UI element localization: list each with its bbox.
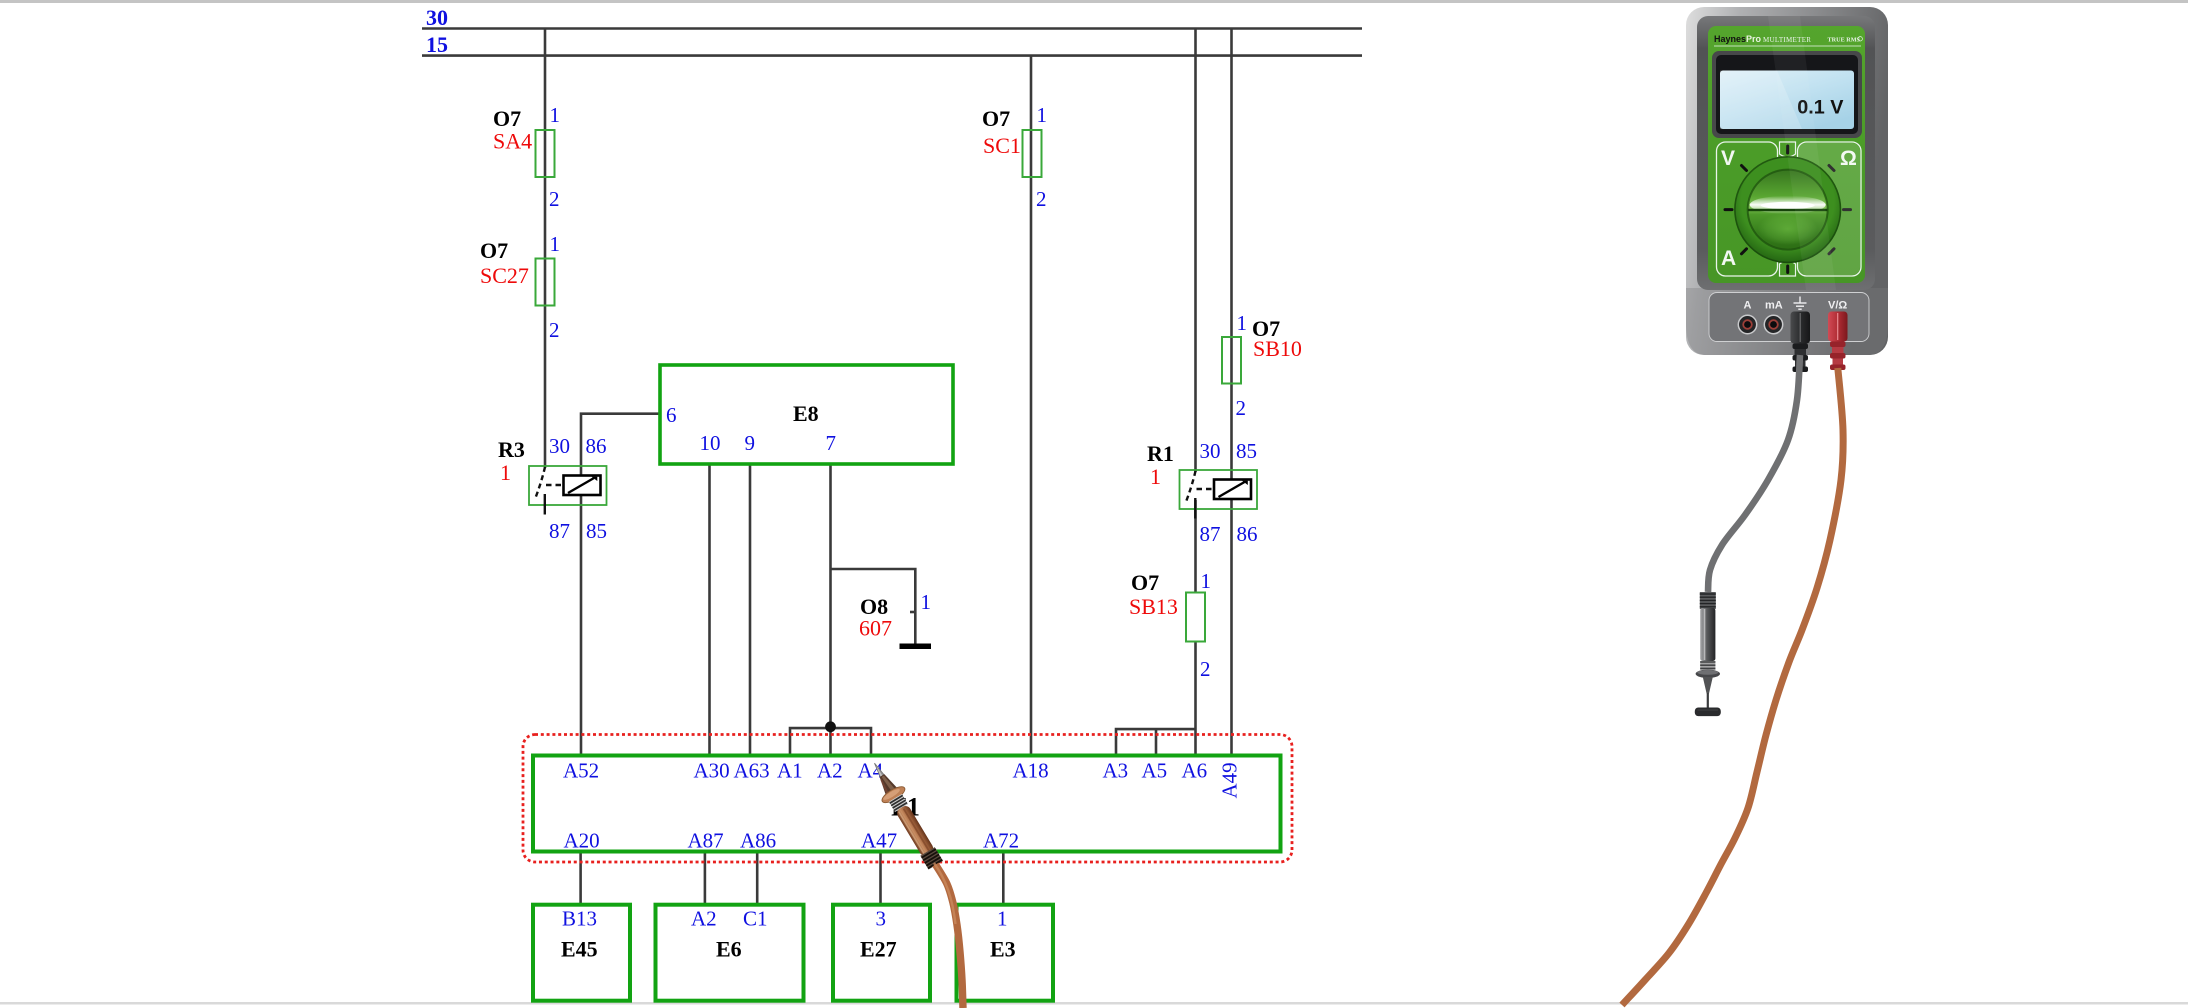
svg-text:2: 2: [549, 187, 560, 211]
relay R3 pin 87 contact stub: [544, 494, 546, 515]
svg-text:V/Ω: V/Ω: [1828, 300, 1847, 312]
svg-text:A1: A1: [777, 759, 803, 783]
svg-text:A49: A49: [1218, 762, 1242, 798]
box E3: [957, 905, 1054, 1001]
wire A47 to E27 pin3: [879, 852, 882, 905]
svg-text:1: 1: [997, 907, 1008, 931]
wire branch to O8: [831, 569, 916, 644]
black probe hanging: [1695, 592, 1721, 716]
wire V4 bus30 to relay R1 pin85: [1230, 29, 1233, 480]
terminal panel: [1709, 293, 1869, 342]
svg-text:O7: O7: [1131, 570, 1159, 595]
wire stub A5: [1155, 729, 1158, 755]
svg-text:TRUE RMS: TRUE RMS: [1828, 37, 1861, 44]
bus 15: [422, 54, 1362, 57]
svg-text:85: 85: [586, 519, 607, 543]
box E45: [533, 905, 630, 1001]
red probe cable down between E27 and E3: [936, 865, 964, 1008]
svg-text:E6: E6: [716, 937, 742, 962]
dial knob: [1748, 170, 1828, 250]
svg-text:7: 7: [826, 431, 837, 455]
page frame bottom: [0, 1002, 2188, 1005]
svg-text:A: A: [1744, 300, 1752, 312]
wire relay R3 pin85 to A52: [580, 494, 583, 756]
junction node A2: [825, 721, 836, 732]
wire A20 to E45 B13: [579, 852, 582, 905]
wire V2 bus15 to A18: [1030, 56, 1033, 756]
dial outer ring: [1734, 156, 1841, 263]
svg-text:2: 2: [549, 318, 560, 342]
wire A86 to E6 C1: [756, 852, 759, 905]
svg-text:B13: B13: [562, 907, 597, 931]
svg-text:O7: O7: [982, 106, 1010, 131]
connector F1 box: [533, 756, 1281, 852]
svg-text:1: 1: [1237, 311, 1248, 335]
meter body: [1686, 7, 1888, 355]
svg-text:1: 1: [1037, 103, 1048, 127]
zone right lighter: [1799, 143, 1861, 275]
svg-text:R1: R1: [1147, 441, 1174, 466]
gray lead from ground jack to black probe: [1708, 355, 1800, 592]
relay R1 coil: [1214, 480, 1251, 500]
svg-text:1: 1: [1201, 569, 1212, 593]
svg-text:A2: A2: [691, 907, 717, 931]
svg-text:SC1: SC1: [983, 133, 1021, 158]
wire bracket A3 A5 to A6 line: [1116, 729, 1196, 755]
relay R1 actuator link: [1197, 488, 1215, 490]
lcd: [1720, 71, 1854, 130]
svg-text:A: A: [1721, 247, 1736, 270]
svg-text:A63: A63: [734, 759, 770, 783]
svg-text:1: 1: [550, 232, 561, 256]
component O8: [859, 590, 931, 641]
wire A72 to E3 pin1: [1002, 852, 1005, 905]
svg-text:1: 1: [550, 103, 561, 127]
relay R1: [1147, 439, 1258, 546]
svg-text:R3: R3: [498, 437, 525, 462]
svg-text:A5: A5: [1142, 759, 1168, 783]
svg-text:E3: E3: [990, 937, 1016, 962]
svg-text:2: 2: [1236, 396, 1247, 420]
svg-text:C1: C1: [743, 907, 768, 931]
svg-text:SA4: SA4: [493, 129, 532, 154]
svg-text:A6: A6: [1182, 759, 1208, 783]
jack A: [1738, 315, 1756, 333]
svg-text:A52: A52: [563, 759, 599, 783]
svg-text:HaynesPro: HaynesPro: [1714, 34, 1762, 44]
bus 30: [422, 27, 1362, 30]
relay R1 switch arm: [1186, 471, 1196, 503]
box E8: [660, 365, 953, 464]
svg-text:2: 2: [1036, 187, 1047, 211]
svg-text:E8: E8: [793, 401, 819, 426]
wire relay R1 pin87 to SB13: [1194, 500, 1197, 593]
svg-text:A72: A72: [983, 829, 1019, 853]
svg-text:E27: E27: [860, 937, 897, 962]
red probe touching pin A4: [863, 756, 947, 871]
svg-text:A2: A2: [817, 759, 843, 783]
svg-text:30: 30: [426, 5, 448, 30]
svg-text:SB10: SB10: [1253, 336, 1302, 361]
svg-text:10: 10: [700, 431, 721, 455]
svg-text:SB13: SB13: [1129, 594, 1178, 619]
svg-text:6: 6: [666, 403, 677, 427]
relay R3 coil: [564, 476, 601, 496]
wire bracket A1 A4: [790, 728, 871, 755]
box E6: [656, 905, 804, 1001]
wire E8 pin6 to relay R3 pin86: [581, 414, 660, 476]
fuse SC27: [480, 232, 560, 342]
svg-text:30: 30: [549, 434, 570, 458]
wire E8 pin9 to A63: [749, 464, 752, 756]
wire V1 bus30 to relay R3 pin30: [544, 29, 547, 469]
ground O8: [900, 644, 932, 650]
meter green face: [1708, 26, 1865, 283]
svg-text:87: 87: [1200, 522, 1221, 546]
svg-text:A86: A86: [740, 829, 776, 853]
fuse SA4: [493, 103, 560, 211]
black plug in ground jack: [1791, 312, 1811, 373]
relay R1 pin 87 contact stub: [1194, 498, 1196, 519]
svg-text:A30: A30: [694, 759, 730, 783]
relay R3 switch arm: [535, 467, 545, 499]
connector F1 red dotted outline: [523, 735, 1292, 863]
wire V3 bus30 to relay R1 pin30: [1194, 29, 1197, 473]
header underline: [1714, 45, 1861, 47]
box E27: [833, 905, 930, 1001]
pin tick O8 pin1: [910, 611, 915, 614]
meter face surround: [1697, 16, 1875, 290]
svg-text:A87: A87: [688, 829, 724, 853]
svg-text:85: 85: [1236, 439, 1257, 463]
dial ticks: [1725, 146, 1851, 273]
zone notch top: [1780, 142, 1796, 157]
svg-text:15: 15: [426, 32, 448, 57]
ground symbol: [1794, 297, 1807, 310]
svg-text:O7: O7: [480, 238, 508, 263]
relay R3: [498, 434, 607, 543]
relay R3 actuator link: [546, 484, 564, 486]
svg-text:O7: O7: [493, 106, 521, 131]
display bezel: [1712, 51, 1862, 138]
page frame top: [0, 0, 2188, 3]
red plug in V-Ohm jack: [1828, 312, 1848, 371]
svg-text:A3: A3: [1103, 759, 1129, 783]
fuse SB10: [1222, 311, 1302, 420]
wire E8 pin10 to A30: [708, 464, 711, 756]
svg-text:1: 1: [1150, 464, 1161, 489]
svg-text:86: 86: [586, 434, 607, 458]
svg-text:9: 9: [745, 431, 756, 455]
fuse SC1: [982, 103, 1047, 211]
svg-text:A20: A20: [564, 829, 600, 853]
wire E8 pin7 to junction and A2: [829, 464, 832, 756]
MULTIMETER: [1686, 7, 1888, 372]
zone outline V/A: [1717, 142, 1778, 276]
svg-text:1: 1: [921, 590, 932, 614]
face sheen: [1768, 16, 1836, 290]
svg-text:mA: mA: [1765, 300, 1783, 312]
svg-text:E45: E45: [561, 937, 598, 962]
svg-text:30: 30: [1200, 439, 1221, 463]
svg-text:A18: A18: [1013, 759, 1049, 783]
svg-text:3: 3: [876, 907, 887, 931]
jack mA: [1764, 315, 1782, 333]
PROBES: [863, 355, 1843, 1008]
fuse SB13: [1129, 569, 1211, 681]
wire SB13 to A6: [1194, 642, 1197, 756]
wire relay R1 pin86 to A49: [1230, 499, 1233, 756]
svg-text:1: 1: [500, 460, 511, 485]
zone notch bottom: [1780, 261, 1796, 276]
svg-text:86: 86: [1237, 522, 1258, 546]
svg-text:A47: A47: [861, 829, 897, 853]
svg-text:V: V: [1721, 147, 1735, 170]
wire A87 to E6 A2: [704, 852, 707, 905]
brown lead from V-Ohm jack down off page: [1622, 368, 1843, 1005]
knob lens: [1750, 196, 1826, 214]
svg-text:2: 2: [1200, 657, 1211, 681]
svg-text:SC27: SC27: [480, 263, 529, 288]
svg-text:87: 87: [549, 519, 570, 543]
zone outline Ohm: [1798, 142, 1862, 276]
svg-text:607: 607: [859, 616, 892, 641]
